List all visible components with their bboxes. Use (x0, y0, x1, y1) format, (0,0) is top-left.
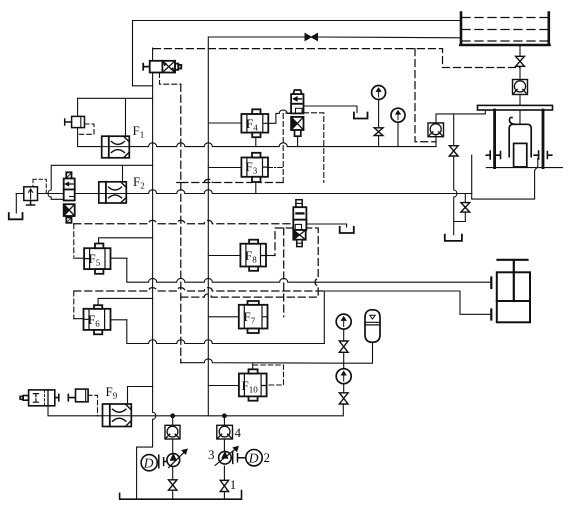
wire pump1 drop (172, 416, 174, 499)
valve V-top on second line (305, 34, 318, 41)
svg-text:2: 2 (264, 450, 271, 465)
relief valve RL left (24, 179, 47, 205)
wire F2 top feed (48, 165, 153, 199)
wire link rect-left to bus P1 (133, 85, 153, 87)
wire pump header (49, 404, 344, 416)
tank drain symbol right (445, 235, 462, 241)
solenoid valve SV top-left (143, 61, 181, 73)
wire dashed pilot top (153, 49, 520, 142)
reducing valve RV2 (293, 200, 306, 247)
wire F6 top link (98, 298, 153, 305)
wire relief top link (78, 98, 153, 136)
wire top supply line to tank (133, 21, 462, 86)
wire bus P4 (127, 320, 324, 344)
wire drain valve branch (454, 194, 466, 222)
tank drain symbol mid (340, 227, 354, 233)
wire check to table (436, 111, 485, 235)
shaft coupling S1 (157, 455, 167, 468)
svg-text:F9: F9 (106, 384, 118, 401)
wire relief drain (15, 194, 17, 214)
wire F8 left (208, 255, 240, 257)
wire press loop (472, 155, 538, 199)
wire B pilot dash (78, 124, 94, 134)
shaft coupling S2 (231, 452, 245, 464)
wire left assembly link (47, 406, 49, 416)
svg-text:1: 1 (230, 477, 237, 492)
wire suction rail (120, 491, 242, 500)
filter F8 (240, 240, 266, 271)
wire F6 left stub (74, 318, 84, 320)
svg-text:F1: F1 (133, 123, 145, 140)
filter F9 (103, 404, 132, 427)
tank drain symbol left (9, 213, 23, 219)
filter F7 (239, 301, 268, 333)
svg-text:D: D (143, 456, 154, 471)
wire second top line from bus P2 to tank (208, 37, 461, 147)
check valve CV-press (513, 80, 528, 95)
check valve CV-mid (428, 123, 444, 137)
wire valve1 left feed (208, 110, 291, 123)
valve V-drain2 vertical (461, 203, 470, 213)
svg-text:F2: F2 (133, 174, 145, 191)
wire dashed bus P6 (74, 288, 324, 291)
SECTION: labels (88, 116, 270, 492)
wire tank drop to press (519, 46, 521, 125)
valve V-drain1 vertical (449, 146, 458, 156)
valve V-G4 (339, 393, 348, 404)
wire vertical bus P2 lower (207, 147, 209, 416)
wire F6 left dash (73, 291, 75, 319)
tank drain symbol top-mid (354, 113, 368, 119)
component PS pressure switch top-left (65, 116, 85, 127)
tank reservoir (460, 13, 549, 46)
svg-text:4: 4 (235, 425, 242, 440)
wire F8 right stub (266, 255, 275, 257)
wire F5 top link (99, 238, 153, 248)
check valve CV-pump1 (165, 425, 180, 439)
svg-text:D: D (248, 451, 259, 466)
wire F3 bottom drop (255, 183, 257, 194)
motor M2 (246, 450, 262, 466)
gauge G2 (391, 108, 405, 122)
wire F3 dashed riser (283, 113, 324, 183)
gauge G3 (336, 314, 351, 329)
wire F5 left dash (73, 224, 75, 257)
node junction pump1 (170, 413, 175, 418)
gauge G4 (336, 369, 351, 384)
filter F3 (241, 153, 268, 182)
valve V-pump2 (220, 480, 228, 491)
stack valve SK left (64, 172, 75, 223)
wire F5 right (111, 257, 127, 259)
cylinder CYL right (491, 260, 530, 323)
wire gauge stack vertical (343, 329, 345, 393)
reducing valve RV1 (291, 90, 303, 136)
wire valve1 bottom drop (297, 136, 299, 146)
wire cylinder bottom feed (324, 291, 491, 344)
wire F9 top link (128, 387, 153, 405)
wire gauge line bottom (181, 342, 373, 363)
wire dashed bus P5 (74, 220, 293, 223)
wire solenoid pilot jog (160, 73, 181, 85)
wire F7 left (208, 316, 239, 318)
check valve CV-pump2 (217, 425, 233, 439)
wire vertical dashed bus PD (180, 84, 182, 363)
wire gauge1 drop (378, 100, 380, 147)
filter F4 (241, 109, 268, 137)
valve V-G1 (374, 128, 383, 136)
press inner cylinder (509, 117, 531, 166)
wire bus F1 line (78, 98, 436, 146)
accumulator AC (365, 310, 380, 343)
valve V-G3 (339, 341, 348, 352)
wire dashed pilot mid (181, 228, 318, 317)
filter F2 (99, 182, 127, 203)
filter F6 (84, 305, 111, 334)
wire left assembly pilot (88, 395, 98, 416)
wire vertical bus P1 (137, 48, 156, 499)
wire dashed reduce line1 (177, 179, 283, 182)
valve V-tank-drop (516, 56, 525, 66)
wire press bottom rail (486, 167, 562, 169)
svg-text:3: 3 (208, 447, 215, 462)
pump P2 (215, 446, 238, 465)
node junction pump2 (222, 413, 227, 418)
wire valve1 right to drain (304, 106, 358, 113)
gauge G1 (372, 86, 386, 100)
motor M1 (141, 455, 157, 471)
wire F10 pilot dash (253, 365, 283, 385)
pump P1 (167, 449, 187, 468)
wire F3 right dash (268, 167, 283, 169)
wire F6 right (111, 319, 127, 321)
wire bus P3 (127, 258, 492, 282)
wire F10 left (208, 385, 239, 387)
wire bus F2 line (16, 190, 471, 194)
left assembly compensator (20, 389, 88, 406)
press frame table (478, 105, 553, 167)
filter F5 (84, 244, 110, 274)
wire F4 bottom drop (255, 137, 257, 146)
wire F10 top stem (252, 363, 254, 374)
press port marks (486, 151, 552, 159)
valve V-pump1 (169, 480, 177, 490)
wire valve2 right to drain (306, 224, 346, 227)
wire gauge2 drop (397, 122, 399, 146)
wire pump2 drop (223, 416, 225, 499)
wire F5 left stub (74, 257, 84, 259)
wire F3 left (208, 167, 241, 169)
filter F1 (102, 136, 130, 158)
filter F10 (239, 369, 267, 400)
